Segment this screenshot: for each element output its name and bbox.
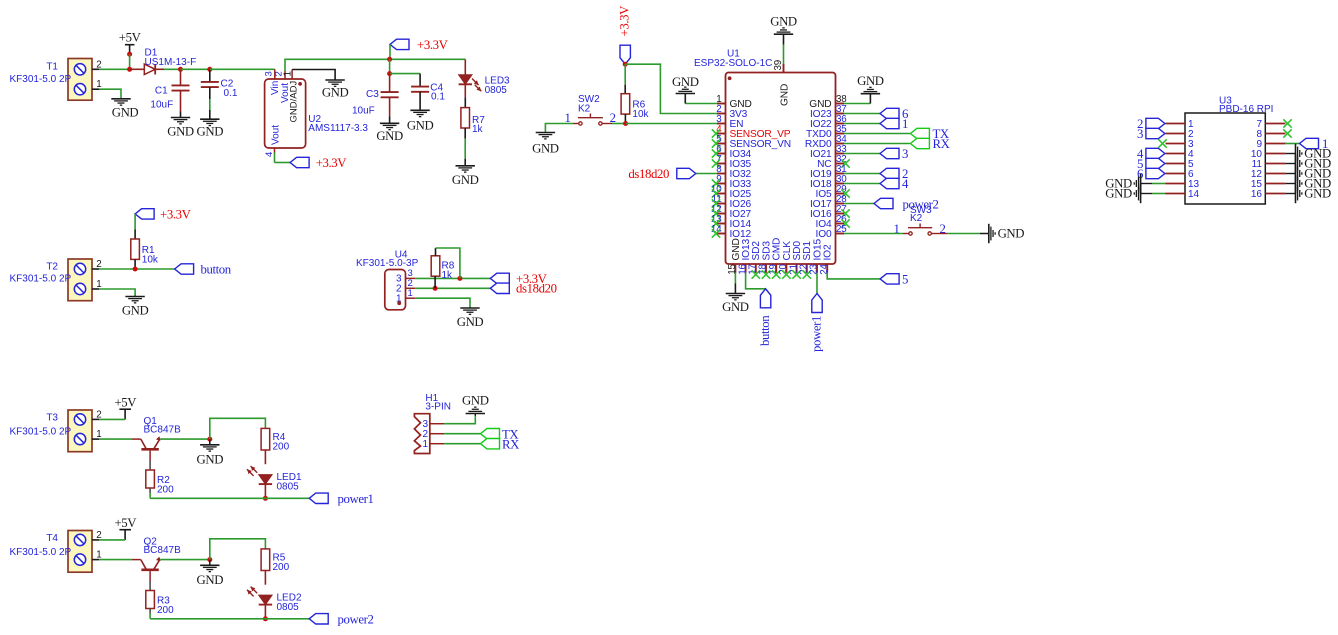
pin 1 of H1 bbox=[430, 443, 444, 445]
no-connect cross pin 27 bbox=[841, 209, 849, 217]
pin 5 of U3 bbox=[1166, 163, 1186, 165]
no-connect cross pin 22 bbox=[803, 270, 811, 278]
svg-text:1: 1 bbox=[283, 71, 294, 76]
no-connect cross pin 20 bbox=[782, 270, 790, 278]
svg-text:ESP32-SOLO-1C: ESP32-SOLO-1C bbox=[694, 58, 772, 69]
svg-text:1: 1 bbox=[902, 117, 908, 131]
wire U2 pin1 to GND bbox=[292, 70, 335, 81]
ground GND at SW2 bbox=[536, 132, 555, 134]
pin 15 of U3 bbox=[1265, 183, 1285, 185]
pin 32 NC of U1 bbox=[836, 163, 845, 165]
pin 24 IO2 of U1 bbox=[826, 264, 828, 273]
wire T2 pin1 to GND bbox=[92, 288, 99, 290]
pin 30 IO18 of U1 bbox=[836, 183, 845, 185]
wire junction up to R4 bbox=[210, 418, 266, 439]
transistor Q1 BC847B bbox=[141, 439, 147, 449]
ground GND left of U1 bbox=[676, 93, 695, 95]
wire U3 pin 12 to GND bbox=[1285, 173, 1295, 175]
svg-text:+5V: +5V bbox=[114, 396, 137, 410]
wire R6 to EN junction bbox=[624, 114, 626, 124]
junction T1/D1 bbox=[127, 67, 132, 72]
pin 3 EN of U1 bbox=[717, 123, 726, 125]
svg-text:IO2: IO2 bbox=[823, 244, 834, 260]
junction R8 top net bbox=[457, 276, 462, 281]
wire U4 pin2 to ds18d20 flag bbox=[415, 287, 490, 289]
pin 23 IO15 of U1 bbox=[816, 264, 818, 273]
wire D1 to C1 bbox=[164, 68, 181, 70]
no-connect cross pin 5 bbox=[712, 139, 720, 147]
svg-text:GND: GND bbox=[998, 227, 1025, 241]
pin 20 CLK of U1 bbox=[785, 264, 787, 273]
terminal block T2 KF301-5.0 2P bbox=[68, 259, 92, 301]
capacitor C3 10uF bbox=[389, 74, 391, 93]
switch SW2 K2 bbox=[579, 122, 582, 125]
pin 39 GND top of U1 bbox=[783, 64, 785, 73]
ground GND at U3 pin 16 bbox=[1295, 184, 1297, 203]
wire flag to R1 bbox=[134, 214, 136, 230]
svg-text:10uF: 10uF bbox=[150, 100, 173, 111]
wire U4 pin1 to GND bbox=[415, 298, 470, 307]
pin 2 of H1 bbox=[430, 433, 444, 435]
svg-text:BC847B: BC847B bbox=[144, 545, 182, 556]
svg-text:GND: GND bbox=[722, 300, 749, 314]
svg-text:10uF: 10uF bbox=[352, 106, 375, 117]
junction C2 bbox=[207, 67, 212, 72]
net flag 1 bbox=[880, 118, 899, 128]
svg-text:T1: T1 bbox=[46, 62, 58, 73]
ground GND at U4 bbox=[460, 307, 479, 309]
pin 4 of U3 bbox=[1166, 153, 1186, 155]
junction +3.3V rail bbox=[387, 57, 392, 62]
pin 4 SENSOR_VP of U1 bbox=[717, 133, 726, 135]
svg-text:+3.3V: +3.3V bbox=[617, 5, 631, 37]
junction R1/button bbox=[133, 267, 138, 272]
svg-text:RX: RX bbox=[933, 137, 951, 151]
diode D1 US1M-13-F bbox=[130, 68, 145, 70]
wire branch to C4 bbox=[390, 73, 421, 75]
svg-text:1: 1 bbox=[408, 288, 413, 299]
pin 25 IO0 of U1 bbox=[836, 233, 845, 235]
ground GND at Q1 bbox=[209, 439, 211, 445]
IC U1 ESP32-SOLO-1C bbox=[726, 73, 836, 265]
no-connect cross pin 10 bbox=[712, 189, 720, 197]
pin 11 IO26 of U1 bbox=[717, 203, 726, 205]
pin 21 SD0 of U1 bbox=[796, 264, 798, 273]
junction emitter/GND bbox=[207, 557, 212, 562]
resistor R4 200 bbox=[261, 428, 270, 450]
no-connect cross pin 26 bbox=[841, 219, 849, 227]
no-connect cross pin 9 bbox=[712, 179, 720, 187]
net flag +3.3V at U4 bbox=[490, 273, 509, 283]
svg-text:+3.3V: +3.3V bbox=[316, 156, 348, 170]
svg-text:3-PIN: 3-PIN bbox=[425, 402, 451, 413]
junction emitter/GND bbox=[207, 437, 212, 442]
svg-text:GND: GND bbox=[197, 573, 224, 587]
wire U3 pin13 to GND bbox=[1152, 183, 1166, 185]
junction C1 bbox=[178, 67, 183, 72]
net flag power1 at U1 bbox=[812, 294, 822, 313]
wire +3.3V flag stub bbox=[389, 44, 391, 59]
ground GND at C4 bbox=[410, 109, 429, 111]
wire bottom to power2 flag bbox=[150, 618, 309, 620]
LED LED2 0805 bbox=[259, 595, 272, 605]
net flag 3 bbox=[880, 148, 899, 158]
no-connect cross pin 17 bbox=[752, 270, 760, 278]
svg-text:GND: GND bbox=[407, 119, 434, 133]
svg-text:GND: GND bbox=[462, 394, 489, 408]
resistor R2 200 bbox=[146, 470, 155, 488]
svg-text:GND: GND bbox=[376, 129, 403, 143]
ground GND at C3 bbox=[380, 122, 399, 124]
no-connect cross pin 18 bbox=[762, 270, 770, 278]
wire +3.3V to R6 bbox=[624, 64, 626, 85]
svg-text:PBD-16 RPI: PBD-16 RPI bbox=[1219, 104, 1273, 115]
connector H1 3-PIN bbox=[414, 414, 429, 454]
pin 2 of U4 bbox=[406, 287, 416, 289]
wire T3 pin1 to Q1 collector bbox=[92, 438, 99, 440]
ground GND at U3 pin 10 bbox=[1295, 144, 1297, 163]
net flag power2 bbox=[309, 614, 328, 624]
net flag 5 at U3 pin5 bbox=[1146, 158, 1165, 168]
resistor R5 200 bbox=[261, 549, 270, 571]
wire pin23 to power1 flag bbox=[816, 273, 818, 294]
wire rail to LED3 bbox=[464, 59, 466, 75]
svg-text:3: 3 bbox=[1137, 127, 1143, 141]
no-connect cross pin 13 bbox=[712, 219, 720, 227]
no-connect cross pin 7 bbox=[712, 159, 720, 167]
wire U2 pin4 to +3.3V flag bbox=[274, 153, 276, 163]
no-connect cross pin 6 bbox=[712, 149, 720, 157]
svg-text:4: 4 bbox=[264, 152, 275, 157]
pin 3 of U3 bbox=[1166, 143, 1186, 145]
ground GND below U1 bbox=[726, 293, 745, 295]
wire pin15 to GND bbox=[734, 273, 736, 284]
svg-text:Vout: Vout bbox=[270, 125, 281, 145]
ground GND right of SW3 bbox=[988, 224, 990, 243]
pin 28 IO17 of U1 bbox=[836, 203, 845, 205]
net flag +3.3V at U2 output bbox=[290, 157, 309, 167]
wire Q2 emitter to GND junction bbox=[160, 559, 210, 561]
pin 6 IO34 of U1 bbox=[717, 153, 726, 155]
wire pin39 to GND top bbox=[783, 45, 785, 64]
svg-text:GND: GND bbox=[322, 86, 349, 100]
svg-text:T4: T4 bbox=[46, 533, 58, 544]
pin 7 IO35 of U1 bbox=[717, 163, 726, 165]
svg-text:GND: GND bbox=[857, 74, 884, 88]
wire U2 pin2 to +3.3V rail bbox=[285, 59, 465, 71]
ground GND at R7 bbox=[456, 165, 475, 167]
svg-text:C1: C1 bbox=[155, 86, 168, 97]
pin 35 TXD0 of U1 bbox=[836, 133, 845, 135]
ground GND at C2 bbox=[200, 118, 219, 120]
junction LED2/power2 bbox=[263, 616, 268, 621]
pin 8 IO32 of U1 bbox=[717, 173, 726, 175]
resistor R3 200 bbox=[146, 591, 155, 609]
svg-text:200: 200 bbox=[273, 562, 290, 573]
svg-text:200: 200 bbox=[157, 485, 174, 496]
svg-text:KF301-5.0 2P: KF301-5.0 2P bbox=[10, 274, 72, 285]
capacitor C4 0.1 bbox=[419, 74, 421, 87]
wire R3 to bottom wire bbox=[149, 609, 151, 614]
wire U3 pin9 to flag 1 bbox=[1285, 143, 1299, 145]
wire +3.3V to ESP32 3V3 bbox=[625, 64, 717, 113]
wire T1 pin2 to +5V junction bbox=[92, 68, 99, 70]
resistor R6 10k bbox=[621, 94, 630, 114]
wire pin16 to button flag bbox=[746, 273, 766, 289]
wire junction up to R5 bbox=[210, 539, 266, 560]
pin 2 Vout of U2 bbox=[284, 71, 286, 79]
terminal block T1 KF301-5.0 2P bbox=[68, 59, 92, 101]
svg-text:1k: 1k bbox=[442, 270, 454, 281]
svg-text:GND: GND bbox=[770, 15, 797, 29]
pin 37 IO23 of U1 bbox=[836, 113, 845, 115]
no-connect cross pin 11 bbox=[712, 199, 720, 207]
svg-text:10k: 10k bbox=[632, 109, 649, 120]
pin1 marker dot U2 bbox=[298, 82, 302, 86]
pin1 marker dot U1 bbox=[728, 76, 732, 80]
no-connect cross pin 12 bbox=[712, 209, 720, 217]
no-connect cross pin 21 bbox=[792, 270, 800, 278]
LED LED3 0805 bbox=[459, 75, 472, 85]
wire R2 to bottom wire bbox=[149, 488, 151, 493]
wire R8 top loop bbox=[435, 248, 437, 256]
pin 6 of U3 bbox=[1166, 173, 1186, 175]
net flag TX at H1 bbox=[481, 429, 500, 439]
ground GND at T1 bbox=[111, 98, 130, 100]
no-connect cross U3 pin3 bbox=[1158, 139, 1166, 147]
pin 13 IO14 of U1 bbox=[717, 223, 726, 225]
no-connect cross U3 pin7 bbox=[1283, 119, 1291, 127]
net flag 3 at U3 pin2 bbox=[1146, 128, 1165, 138]
svg-text:GND: GND bbox=[672, 75, 699, 89]
svg-text:39: 39 bbox=[773, 60, 784, 71]
resistor R8 1k bbox=[431, 256, 440, 276]
svg-text:5: 5 bbox=[902, 273, 908, 287]
wire pin30 to flag 4 bbox=[844, 183, 880, 185]
svg-text:C3: C3 bbox=[366, 89, 379, 100]
wire C2 to U2 Vin bbox=[210, 68, 275, 70]
wire H1 pin2 to TX flag bbox=[444, 433, 480, 435]
pin1 marker dot U4 bbox=[397, 301, 401, 305]
wire H1 pin3 to GND bbox=[444, 416, 475, 424]
wire U3 pin14 to GND bbox=[1152, 193, 1166, 195]
svg-text:200: 200 bbox=[157, 605, 174, 616]
wire rail to C3/C4 branch bbox=[389, 59, 391, 73]
ground GND at U3 pin 11 bbox=[1295, 154, 1297, 173]
wire EN to ESP32 pin3 bbox=[626, 123, 717, 125]
net flag RX bbox=[910, 138, 929, 148]
connector U4 KF301-5.0-3P bbox=[385, 270, 406, 310]
pin 9 of U3 bbox=[1265, 143, 1285, 145]
net flag ds18d20 at U4 bbox=[490, 283, 509, 293]
ground GND at U3 pin 12 bbox=[1295, 164, 1297, 183]
net flag +3.3V above R1 bbox=[135, 209, 154, 219]
net flag 4 at U3 pin4 bbox=[1146, 148, 1165, 158]
svg-text:GND: GND bbox=[197, 453, 224, 467]
wire GND to SW2 pin1 bbox=[545, 124, 573, 133]
wire +5V down bbox=[129, 54, 131, 69]
svg-text:ds18d20: ds18d20 bbox=[516, 282, 557, 296]
net flag 2 bbox=[880, 168, 899, 178]
wire ESP32 pin1 to GND bbox=[685, 103, 717, 105]
svg-text:ds18d20: ds18d20 bbox=[628, 167, 669, 181]
wire U4 pin3 to +3.3V flag bbox=[415, 277, 490, 279]
ground GND at U3 pin 15 bbox=[1295, 174, 1297, 193]
wire T3 pin2 to +5V bbox=[92, 418, 99, 420]
wire C1 to C2 bbox=[181, 68, 210, 70]
net flag RX at H1 bbox=[481, 439, 500, 449]
pin 10 IO25 of U1 bbox=[717, 193, 726, 195]
wire R7 to GND bbox=[464, 128, 466, 139]
no-connect cross U3 pin8 bbox=[1283, 129, 1291, 137]
wire R8 bottom to pin2 net bbox=[434, 276, 436, 288]
svg-text:200: 200 bbox=[273, 442, 290, 453]
net flag 1 at U3 pin9 bbox=[1300, 138, 1319, 148]
svg-text:RX: RX bbox=[502, 437, 520, 451]
pin 11 of U3 bbox=[1265, 163, 1285, 165]
junction R8 bottom net bbox=[433, 286, 438, 291]
wire pin25 to SW3 bbox=[844, 233, 903, 235]
wire LED3 to R7 bbox=[464, 84, 466, 97]
junction LED1/power1 bbox=[263, 496, 268, 501]
wire pin33 to flag 3 bbox=[844, 153, 880, 155]
no-connect cross pin 4 bbox=[712, 129, 720, 137]
svg-text:1k: 1k bbox=[472, 124, 484, 135]
resistor R7 1k bbox=[461, 108, 470, 128]
junction EN net bbox=[623, 121, 628, 126]
pin 19 CMD of U1 bbox=[775, 264, 777, 273]
wire pin36 to flag 1 bbox=[844, 123, 880, 125]
wire U3 pin 15 to GND bbox=[1285, 183, 1295, 185]
pin 15 GND of U1 bbox=[734, 264, 736, 273]
svg-text:KF301-5.0 2P: KF301-5.0 2P bbox=[10, 74, 72, 85]
ground GND right of U1 bbox=[861, 93, 880, 95]
wire U3 pin 11 to GND bbox=[1285, 163, 1295, 165]
svg-text:14: 14 bbox=[1188, 189, 1200, 200]
ground GND at U3 pin13 bbox=[1140, 174, 1142, 193]
pin 36 IO22 of U1 bbox=[836, 123, 845, 125]
pin 33 IO21 of U1 bbox=[836, 153, 845, 155]
pin 2 3V3 of U1 bbox=[717, 113, 726, 115]
junction on +5V stub bbox=[127, 52, 132, 57]
net flag button at U1 bbox=[760, 289, 770, 308]
capacitor C1 10uF bbox=[180, 69, 182, 85]
power flag +3.3V top bbox=[390, 39, 409, 49]
svg-text:T3: T3 bbox=[46, 413, 58, 424]
pin 3 of H1 bbox=[430, 423, 444, 425]
pin 16 IO13 of U1 bbox=[745, 264, 747, 273]
wire T4 pin1 to Q2 collector bbox=[92, 559, 99, 561]
svg-text:+5V: +5V bbox=[114, 516, 137, 530]
pin 16 of U3 bbox=[1265, 193, 1285, 195]
pin 18 SD3 of U1 bbox=[765, 264, 767, 273]
no-connect cross pin 32 bbox=[841, 159, 849, 167]
pin 2 of U3 bbox=[1166, 133, 1186, 135]
net flag power1 bbox=[309, 493, 328, 503]
wire Q1 emitter to GND junction bbox=[160, 438, 210, 440]
connector U3 PBD-16 RPI bbox=[1185, 113, 1265, 204]
svg-text:KF301-5.0 2P: KF301-5.0 2P bbox=[10, 427, 72, 438]
ground GND above U1 bbox=[774, 33, 793, 35]
svg-text:3: 3 bbox=[902, 147, 908, 161]
pin 14 of U3 bbox=[1166, 193, 1186, 195]
svg-text:GND: GND bbox=[197, 125, 224, 139]
wire ESP32 pin38 to GND bbox=[844, 103, 870, 105]
svg-text:power1: power1 bbox=[338, 492, 374, 506]
net flag power2 bbox=[874, 198, 893, 208]
svg-text:10k: 10k bbox=[142, 255, 159, 266]
pin 3 of U4 bbox=[406, 277, 416, 279]
svg-text:4: 4 bbox=[902, 177, 909, 191]
wire U3 pin 16 to GND bbox=[1285, 193, 1295, 195]
terminal block T3 KF301-5.0 2P bbox=[68, 410, 92, 452]
pin 1 of U3 bbox=[1166, 123, 1186, 125]
wire SW3 pin2 to GND bbox=[931, 233, 947, 235]
svg-text:K2: K2 bbox=[578, 103, 591, 114]
pin 22 SD1 of U1 bbox=[806, 264, 808, 273]
svg-text:BC847B: BC847B bbox=[144, 425, 182, 436]
regulator U2 AMS1117-3.3 bbox=[265, 79, 306, 148]
svg-text:GND/ADJ: GND/ADJ bbox=[289, 81, 300, 123]
svg-text:IO0: IO0 bbox=[816, 229, 832, 240]
power flag +3.3V above R6 bbox=[620, 45, 630, 64]
net flag 4 bbox=[880, 178, 899, 188]
ground GND at H1 bbox=[466, 413, 485, 415]
wire LED1 to bottom junction bbox=[264, 484, 266, 498]
no-connect cross pin 19 bbox=[772, 270, 780, 278]
net flag TX bbox=[910, 128, 929, 138]
ground GND right of U2 bbox=[325, 79, 344, 81]
pin 8 of U3 bbox=[1265, 133, 1285, 135]
svg-text:0805: 0805 bbox=[485, 85, 508, 96]
pin 38 GND of U1 bbox=[836, 103, 845, 105]
net flag 6 bbox=[880, 108, 899, 118]
ground GND at T2 bbox=[125, 296, 144, 298]
svg-text:+5V: +5V bbox=[119, 31, 142, 45]
svg-text:T2: T2 bbox=[46, 262, 58, 273]
wire pin24 to flag 5 bbox=[827, 273, 880, 279]
net flag 5 bbox=[880, 274, 899, 284]
no-connect cross pin 14 bbox=[712, 229, 720, 237]
svg-text:0805: 0805 bbox=[277, 602, 300, 613]
svg-text:16: 16 bbox=[1251, 189, 1263, 200]
pin 3 Vin of U2 bbox=[274, 69, 276, 79]
net flag 2 at U3 pin1 bbox=[1146, 118, 1165, 128]
svg-text:button: button bbox=[201, 263, 232, 277]
svg-text:0805: 0805 bbox=[277, 482, 300, 493]
wire H1 pin1 to RX flag bbox=[444, 443, 480, 445]
LED LED1 0805 bbox=[259, 475, 272, 485]
pin 26 IO4 of U1 bbox=[836, 223, 845, 225]
svg-text:24: 24 bbox=[819, 264, 830, 275]
svg-text:GND: GND bbox=[112, 105, 139, 119]
svg-text:K2: K2 bbox=[910, 213, 923, 224]
svg-text:GND: GND bbox=[532, 142, 559, 156]
pin 31 IO19 of U1 bbox=[836, 173, 845, 175]
svg-text:GND: GND bbox=[1304, 187, 1331, 201]
svg-text:GND: GND bbox=[1105, 187, 1132, 201]
wire R1 to junction bbox=[134, 259, 136, 269]
resistor R1 10k bbox=[131, 239, 140, 259]
terminal block T4 KF301-5.0 2P bbox=[68, 531, 92, 573]
svg-text:GND: GND bbox=[452, 173, 479, 187]
pin 10 of U3 bbox=[1265, 153, 1285, 155]
svg-text:GND: GND bbox=[167, 125, 194, 139]
svg-text:GND: GND bbox=[122, 304, 149, 318]
pin 13 of U3 bbox=[1166, 183, 1186, 185]
pin 12 of U3 bbox=[1265, 173, 1285, 175]
ground GND at Q2 bbox=[209, 560, 211, 566]
